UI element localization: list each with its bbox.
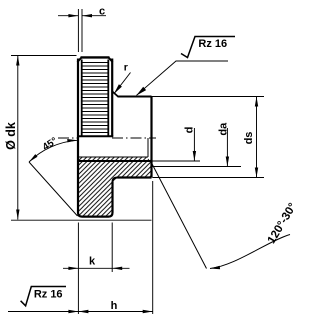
svg-text:r: r	[124, 62, 128, 74]
svg-text:Rz 16: Rz 16	[198, 38, 227, 50]
svg-text:Rz 16: Rz 16	[34, 288, 63, 300]
svg-text:ds: ds	[243, 132, 255, 145]
svg-text:da: da	[218, 122, 230, 136]
svg-text:k: k	[89, 256, 96, 268]
svg-text:c: c	[99, 6, 105, 18]
svg-text:h: h	[111, 300, 118, 312]
svg-text:d: d	[183, 127, 195, 134]
svg-text:Ø dk: Ø dk	[4, 122, 18, 150]
